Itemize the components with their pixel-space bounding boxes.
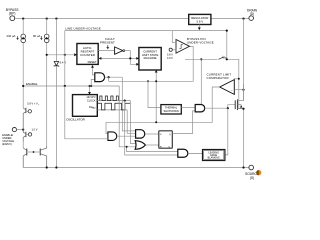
svg-text:−: − bbox=[231, 88, 233, 92]
wire L1 out to A2 bbox=[117, 135, 136, 137]
node rail-zener bbox=[55, 18, 57, 20]
svg-text:90 µA: 90 µA bbox=[33, 34, 40, 38]
node gate drive bbox=[227, 107, 229, 109]
svg-text:ENABLE: ENABLE bbox=[26, 82, 37, 86]
pin SOURCE (S) bbox=[245, 165, 259, 180]
svg-text:1.0 V: 1.0 V bbox=[32, 129, 38, 132]
node comp ref bbox=[238, 78, 240, 80]
current source I2 bbox=[33, 19, 49, 146]
wire EN pin to stack bbox=[17, 129, 24, 131]
wire A1 output bbox=[105, 76, 123, 78]
wire bottom rail bbox=[23, 167, 249, 169]
node EN junction bbox=[22, 129, 24, 131]
comparator U4 bypass pin under-voltage bbox=[167, 31, 190, 60]
pin DRAIN (D) bbox=[247, 9, 258, 21]
wire thermal to Gtop bbox=[181, 107, 195, 109]
node rail-drain bbox=[242, 18, 244, 20]
wire reset bus counter-SM bbox=[99, 57, 139, 59]
svg-text:T: T bbox=[38, 104, 40, 106]
gate A1 AND auto-restart bbox=[95, 73, 105, 82]
wire fault bus to SM reset bbox=[155, 72, 157, 81]
svg-text:4.9 V: 4.9 V bbox=[167, 57, 173, 60]
wire dcmax to A2 bbox=[127, 110, 135, 133]
node bypassUV tap bbox=[155, 80, 157, 82]
svg-text:SHUTDOWN: SHUTDOWN bbox=[163, 109, 178, 113]
wire comp output path bbox=[106, 87, 220, 134]
node lineUV corner bbox=[226, 30, 228, 32]
svg-text:COUNTER: COUNTER bbox=[80, 53, 96, 57]
wire bus to thermal bbox=[148, 81, 161, 107]
svg-text:Q: Q bbox=[169, 134, 171, 136]
pin EN/UV bbox=[2, 128, 16, 147]
node enable-gout bbox=[126, 146, 128, 148]
block U5 REGULATOR 5.8V bbox=[189, 14, 211, 24]
zener VR1 6.4V bbox=[54, 19, 67, 168]
wire counter to buffer bbox=[98, 50, 114, 52]
wire FF Q to Gtop bbox=[172, 111, 195, 134]
arrow fault annotation bbox=[107, 45, 109, 49]
wire lineUV corner down bbox=[226, 31, 228, 60]
svg-text:5.8 V: 5.8 V bbox=[197, 20, 204, 24]
svg-text:RESET: RESET bbox=[88, 60, 97, 64]
node lineUV-bus bbox=[64, 54, 66, 56]
comparator U6 current limit bbox=[220, 80, 235, 95]
wire enable branch to output gate bbox=[127, 147, 178, 152]
svg-text:OSCILLATOR: OSCILLATOR bbox=[66, 118, 86, 122]
node rail-Q4 bbox=[46, 166, 48, 168]
gate O1 OR latch set bbox=[135, 141, 145, 150]
svg-text:(BP): (BP) bbox=[9, 12, 15, 16]
wire regulator output bbox=[198, 25, 200, 29]
wire drain vertical bbox=[243, 19, 245, 101]
node thermal tap bbox=[147, 80, 149, 82]
node mosfet source bbox=[242, 108, 244, 110]
arrow into counter left bbox=[74, 53, 77, 56]
wire counter reset to A1 bbox=[93, 66, 95, 75]
node osc-enable bbox=[88, 85, 90, 87]
wire mirror bases bbox=[27, 151, 40, 153]
arrow into counter right bbox=[99, 57, 102, 60]
node rail-mosfet bbox=[242, 166, 244, 168]
waveform dcmax pulses bbox=[98, 103, 131, 110]
node rail-zener bbox=[55, 166, 57, 168]
wire Gtop out to mosfet gate bbox=[205, 105, 236, 109]
svg-text:MACHINE: MACHINE bbox=[144, 56, 157, 60]
node enable-lineUV bbox=[64, 85, 66, 87]
wire bypassUV comp out down bbox=[109, 47, 194, 82]
block U8 THERMAL SHUTDOWN bbox=[161, 105, 181, 114]
gate L1 AND latch-reset bbox=[108, 132, 117, 141]
flip-flop U7 latch bbox=[159, 131, 173, 149]
transistor Q2 EN sense lower bbox=[23, 130, 28, 142]
svg-text:PRESENT: PRESENT bbox=[100, 41, 115, 45]
node enable-left bbox=[22, 85, 24, 87]
reference V2 1.0V bbox=[28, 129, 37, 136]
wire bypassUV reset to latch bbox=[155, 81, 157, 122]
wire clock2 to OR bbox=[130, 101, 135, 144]
svg-text:COMPARATOR: COMPARATOR bbox=[207, 76, 229, 80]
wire buffer out bbox=[125, 51, 139, 65]
wire L1 in2 bbox=[65, 86, 108, 139]
wire dcmax line bbox=[97, 109, 127, 111]
node reset-enable bbox=[90, 85, 92, 87]
node switch-lineUV bbox=[226, 58, 228, 60]
wire clock to output gate bbox=[125, 101, 178, 155]
gate Gtop AND gate-drive bbox=[195, 105, 205, 112]
block U1 AUTO-RESTART COUNTER bbox=[77, 44, 98, 65]
svg-text:6.4 V: 6.4 V bbox=[60, 60, 67, 64]
svg-text:(D): (D) bbox=[250, 12, 254, 16]
wire top rail regulator to drain bbox=[211, 18, 249, 20]
waveform clock pulses bbox=[100, 96, 119, 101]
wire A1 out down to fault bus bbox=[108, 77, 110, 81]
arrow up into counter reset bbox=[91, 65, 94, 68]
arrow regulator to BP line bbox=[198, 27, 201, 30]
svg-text:(EN/UV): (EN/UV) bbox=[2, 142, 12, 146]
svg-text:UNDER-VOLTAGE: UNDER-VOLTAGE bbox=[187, 41, 214, 45]
node ilimit-gate bbox=[200, 58, 202, 60]
switch ilimit bbox=[219, 57, 225, 60]
wire switch to comp ref bbox=[226, 59, 244, 108]
svg-text:Q: Q bbox=[168, 147, 170, 149]
node A1 out bbox=[108, 76, 110, 78]
wire comp in2 stub bbox=[234, 78, 239, 80]
wire line UV horizontal bbox=[65, 30, 227, 32]
wire clock line bbox=[97, 100, 130, 102]
wire osc sync from enable bbox=[89, 86, 91, 94]
wire OR out to FF bbox=[146, 144, 159, 146]
wire enable to A1 bbox=[91, 79, 95, 86]
block U9 LEADING EDGE BLANKING bbox=[203, 150, 225, 161]
node fault-reset bbox=[129, 57, 131, 59]
arrow up into SM bottom bbox=[155, 70, 158, 73]
node CS2-bus bbox=[46, 54, 48, 56]
gate A2 AND pwm bbox=[136, 130, 145, 138]
node rail-CS1 bbox=[22, 18, 24, 20]
svg-text:(S): (S) bbox=[250, 176, 254, 180]
wire A1 down to A2 bbox=[122, 77, 135, 131]
node sense tap bbox=[242, 89, 244, 91]
node clock branch bbox=[124, 100, 126, 102]
reference V1 5.8V bbox=[27, 103, 40, 113]
gate Gout AND output bbox=[178, 149, 188, 157]
transistor Q1 EN sense upper bbox=[23, 106, 28, 130]
wire LEB out up to gate bbox=[225, 108, 228, 155]
wire BP node horizontal to counter bbox=[47, 54, 75, 56]
arrow SM in2 bbox=[136, 63, 139, 66]
svg-text:BLANKING: BLANKING bbox=[208, 157, 220, 160]
wire enable down to OR bbox=[119, 86, 136, 147]
wire LINE UV corner bbox=[64, 31, 66, 86]
buffer fault present bbox=[115, 47, 123, 54]
svg-text:LINE UNDER-VOLTAGE: LINE UNDER-VOLTAGE bbox=[65, 27, 101, 31]
pin BYPASS (BP) bbox=[6, 8, 19, 21]
marker orange dot bbox=[256, 170, 261, 175]
wire top rail BP to regulator bbox=[15, 18, 189, 20]
svg-text:240 µA: 240 µA bbox=[7, 34, 16, 38]
block U2 OSCILLATOR bbox=[66, 95, 97, 122]
node reset join bbox=[155, 121, 157, 123]
transistor M1 power MOSFET bbox=[235, 84, 243, 168]
node mirror base bbox=[33, 151, 35, 153]
wire A2 out to FF bbox=[145, 133, 159, 135]
wire ilimit to gate Gtop bbox=[200, 59, 202, 104]
wire ilimit select line bbox=[185, 58, 218, 60]
transistor Q3 mirror left bbox=[23, 142, 27, 168]
wire Gout to LEB bbox=[188, 152, 203, 154]
svg-text:5.8 V + V: 5.8 V + V bbox=[27, 103, 38, 106]
transistor Q4 mirror right bbox=[40, 146, 47, 168]
svg-text:CLOCK: CLOCK bbox=[87, 100, 96, 103]
wire ENABLE line bbox=[23, 85, 119, 87]
block U3 CURRENT LIMIT STATE MACHINE bbox=[139, 48, 161, 71]
node rail-CS2 bbox=[46, 18, 48, 20]
wire comp input sense bbox=[234, 89, 243, 91]
arrow down into oscillator bbox=[88, 92, 91, 95]
current source I1 bbox=[7, 19, 26, 106]
arrow SM in1 bbox=[136, 57, 139, 60]
